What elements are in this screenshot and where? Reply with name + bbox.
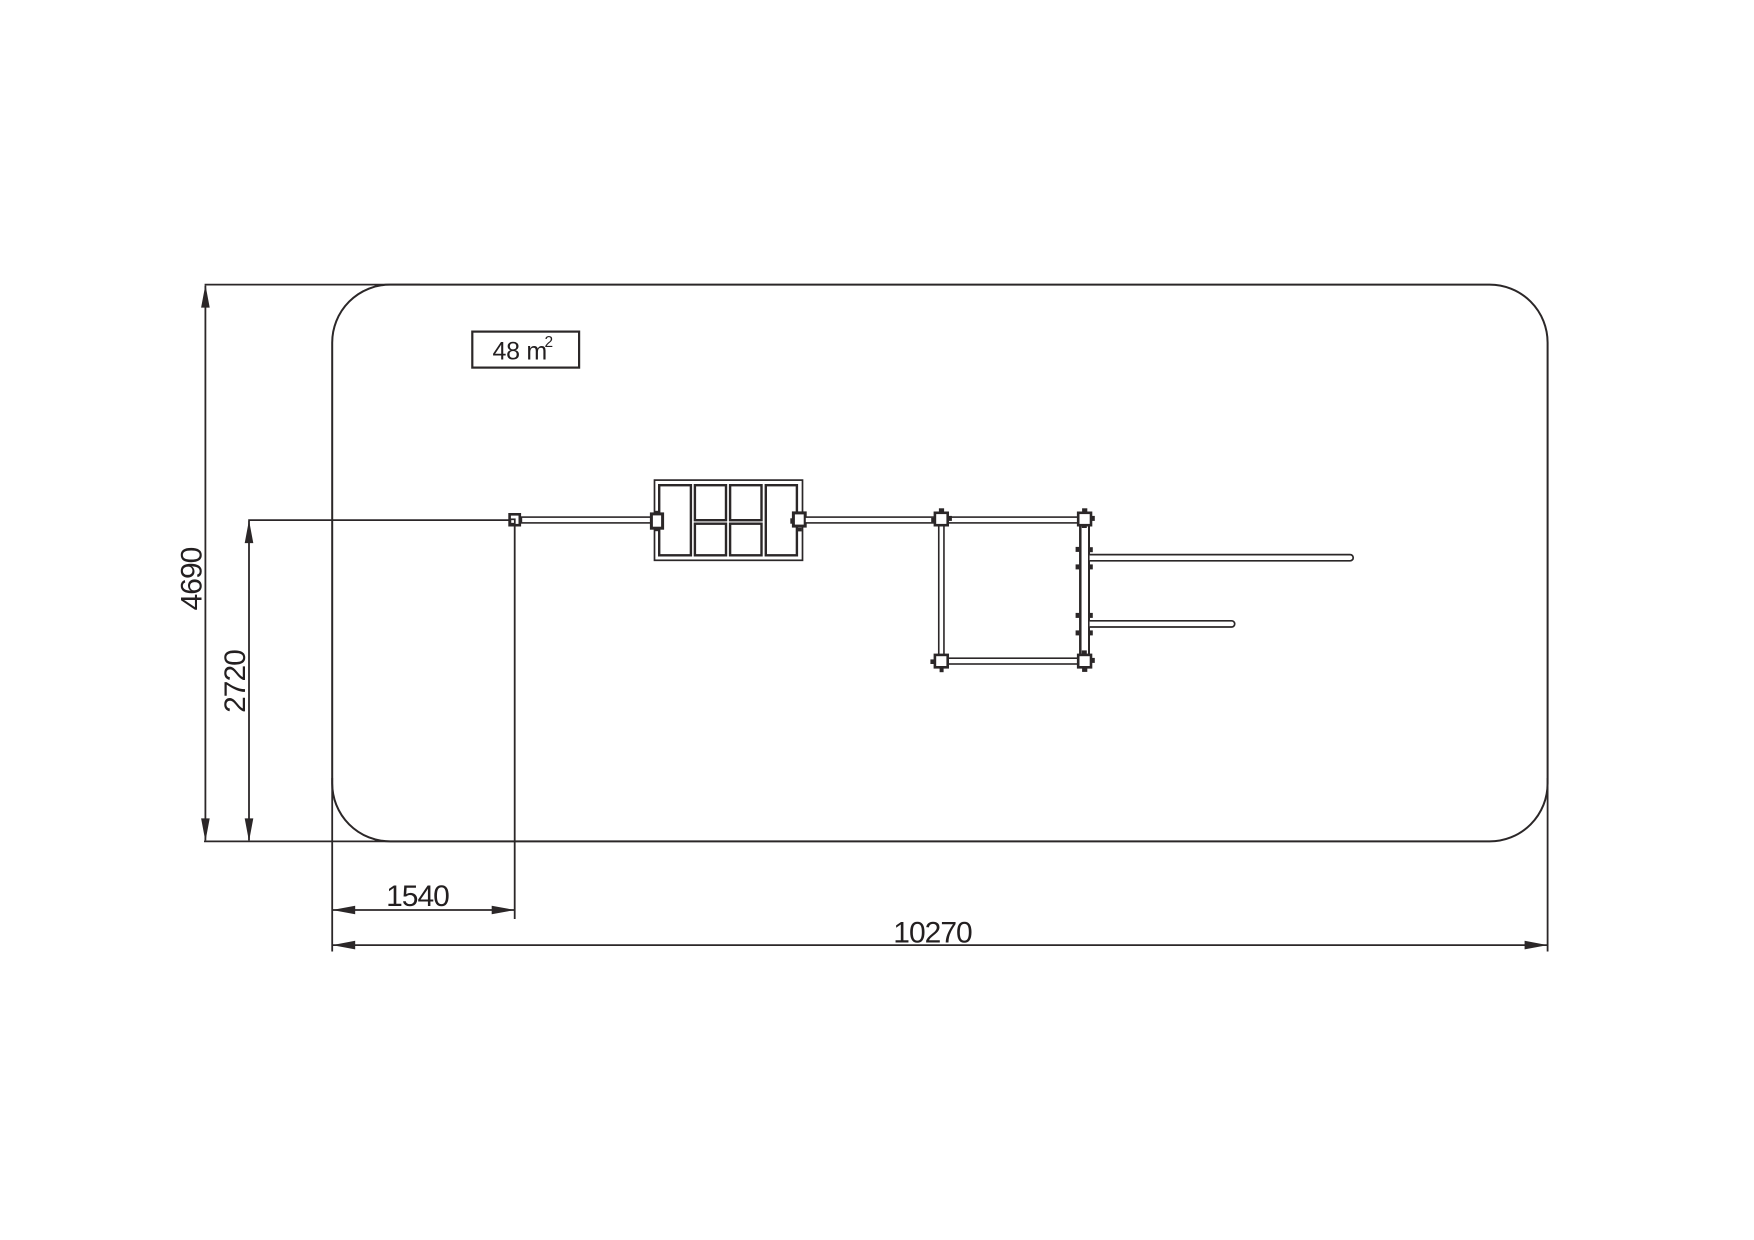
svg-text:10270: 10270	[893, 917, 972, 950]
svg-text:2: 2	[545, 334, 554, 351]
svg-text:1540: 1540	[386, 880, 449, 913]
svg-text:48 m: 48 m	[493, 337, 547, 365]
svg-text:2720: 2720	[219, 650, 252, 713]
svg-text:4690: 4690	[176, 547, 209, 610]
